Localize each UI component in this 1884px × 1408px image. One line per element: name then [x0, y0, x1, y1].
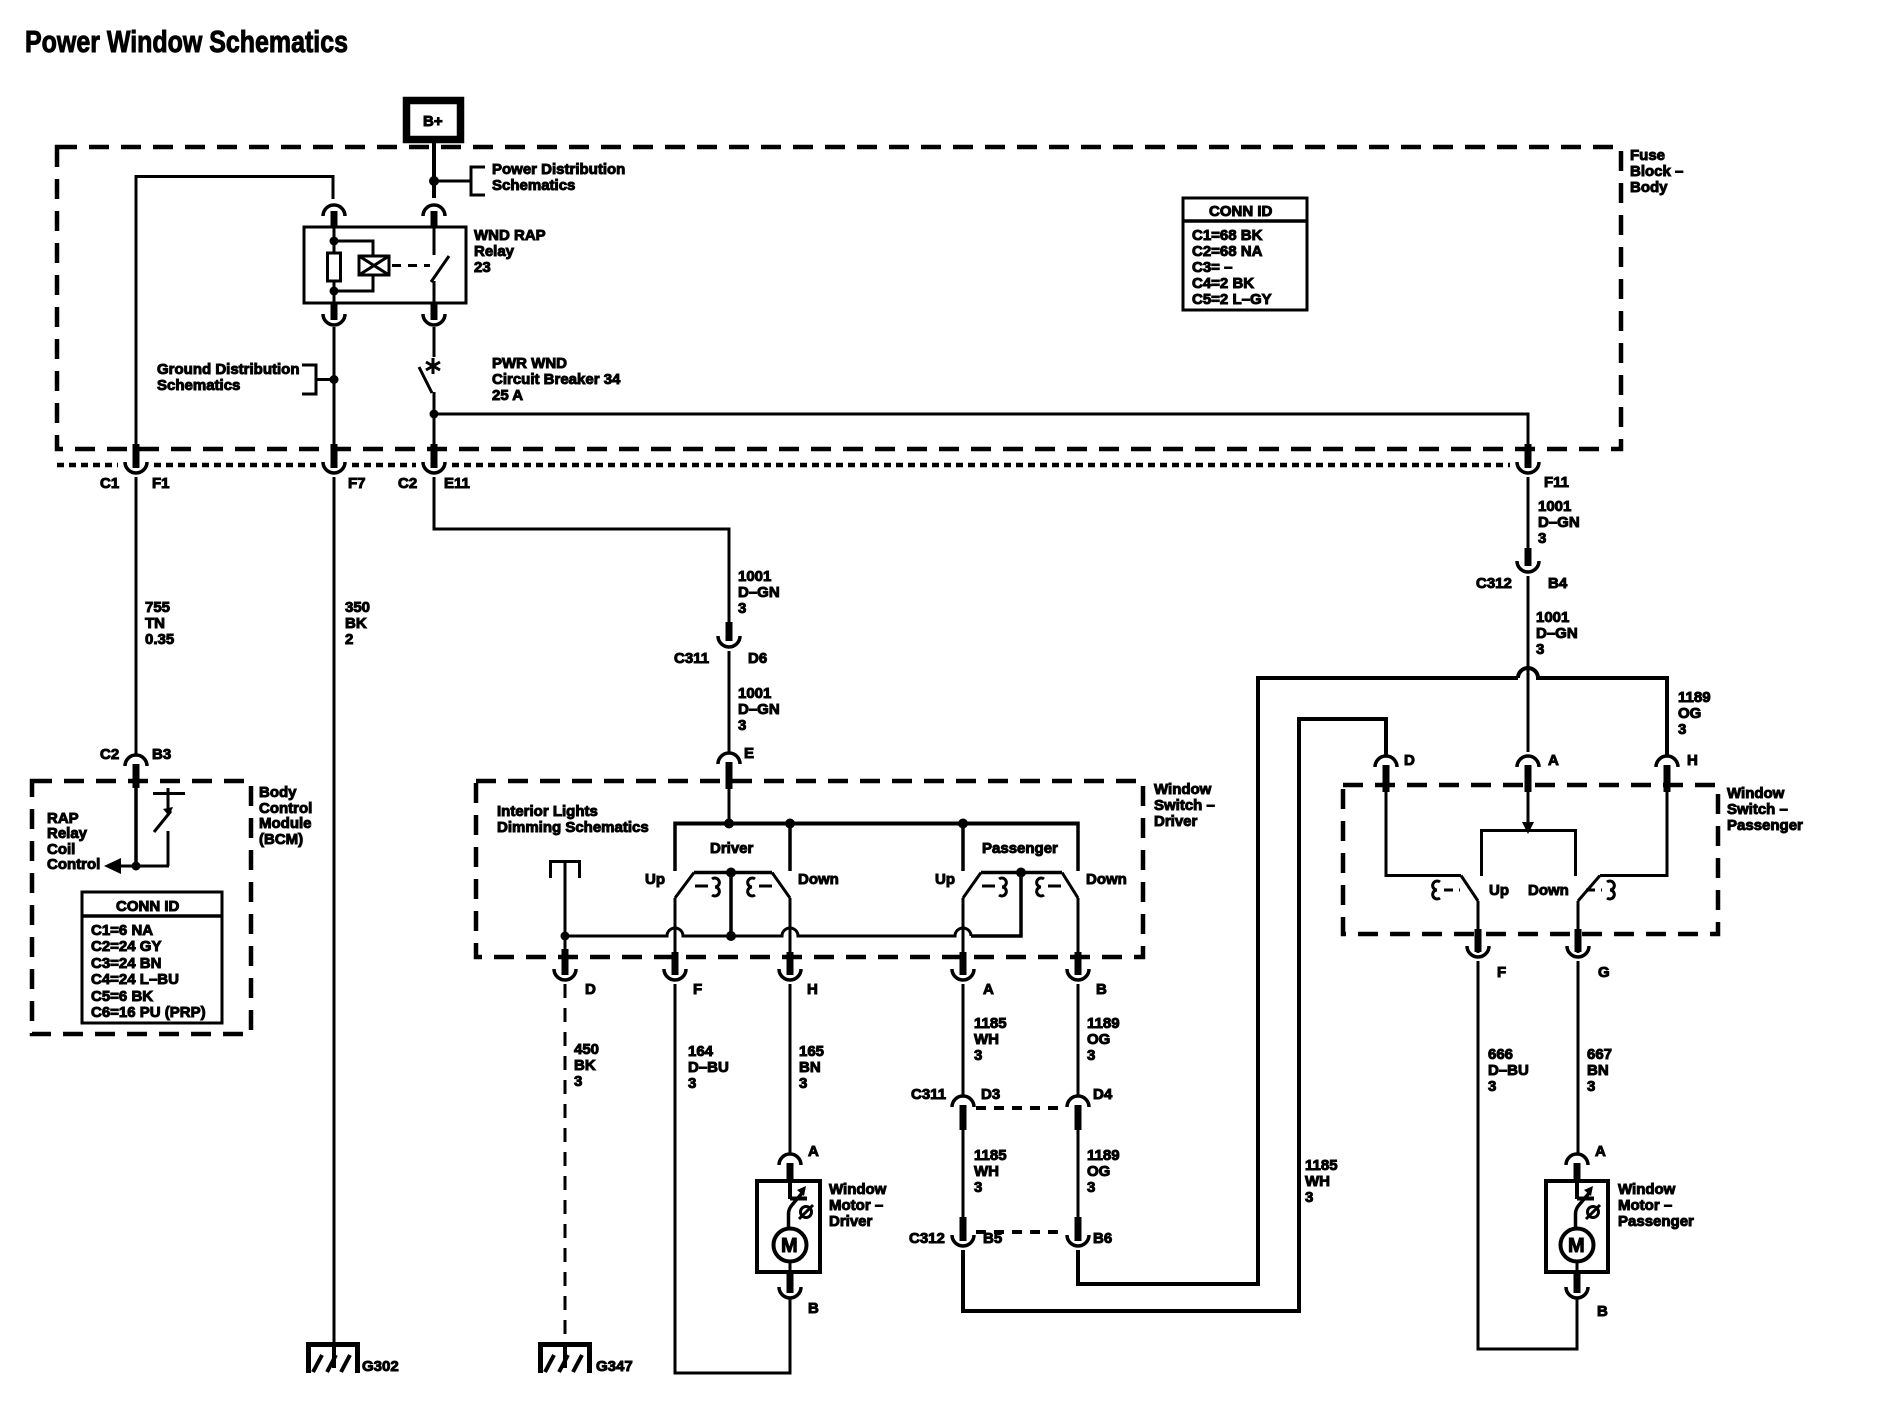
- svg-text:C311: C311: [674, 650, 709, 667]
- connector A window motor passenger: [1566, 1143, 1606, 1182]
- window switch driver box: [476, 781, 1215, 957]
- svg-text:Driver: Driver: [829, 1213, 873, 1230]
- svg-text:BK: BK: [574, 1057, 596, 1074]
- coil parallel branch wires: [334, 241, 373, 256]
- down switch blade: [1578, 876, 1600, 902]
- svg-text:F: F: [693, 981, 702, 998]
- svg-text:Dimming Schematics: Dimming Schematics: [497, 819, 649, 836]
- connector A: [952, 952, 994, 998]
- svg-text:C2: C2: [398, 475, 417, 492]
- svg-text:3: 3: [974, 1179, 982, 1196]
- svg-text:WH: WH: [974, 1163, 999, 1180]
- connector B window motor passenger: [1566, 1272, 1608, 1320]
- ground G347: [538, 1342, 633, 1375]
- svg-text:Down: Down: [798, 871, 839, 888]
- svg-text:C1: C1: [100, 475, 119, 492]
- svg-text:1189: 1189: [1087, 1147, 1120, 1164]
- driver down output wire: [789, 898, 792, 952]
- svg-text:3: 3: [1087, 1179, 1095, 1196]
- node driver rocker center: [726, 868, 736, 878]
- svg-text:Schematics: Schematics: [492, 177, 575, 194]
- switch feed top rail: [675, 822, 1078, 826]
- node breaker output: [430, 410, 439, 419]
- BCM box: [32, 781, 312, 1034]
- svg-text:Module: Module: [259, 815, 312, 832]
- svg-text:Interior Lights: Interior Lights: [497, 803, 598, 820]
- svg-text:G302: G302: [362, 1358, 399, 1375]
- svg-text:Up: Up: [1489, 882, 1509, 899]
- driver down feed stub: [788, 824, 792, 872]
- svg-text:1189: 1189: [1678, 689, 1711, 706]
- svg-text:1001: 1001: [1536, 609, 1569, 626]
- svg-text:Body: Body: [259, 784, 297, 801]
- connector C311/D4: [1067, 1086, 1113, 1130]
- wire relay pin3 down: [333, 327, 336, 448]
- connector F11: [1517, 444, 1569, 491]
- node coil bottom: [330, 287, 339, 296]
- ground G302: [306, 1342, 399, 1375]
- relay switch fixed wire: [433, 227, 436, 255]
- svg-text:3: 3: [799, 1075, 807, 1092]
- driver down detent: [748, 878, 772, 896]
- wire A feed with arrow: [1522, 792, 1534, 834]
- svg-text:C312: C312: [909, 1230, 945, 1247]
- svg-text:PWR WND: PWR WND: [492, 355, 567, 372]
- svg-text:A: A: [808, 1143, 819, 1160]
- svg-text:G: G: [1598, 964, 1610, 981]
- passenger common bracket: [1480, 829, 1577, 876]
- relay pin 3 connector (below box left): [323, 303, 345, 325]
- connector C311/D3: [911, 1086, 1000, 1130]
- svg-text:Down: Down: [1086, 871, 1127, 888]
- svg-text:BK: BK: [345, 615, 367, 632]
- svg-text:1185: 1185: [974, 1015, 1007, 1032]
- svg-text:3: 3: [1087, 1047, 1095, 1064]
- svg-text:C2: C2: [100, 746, 119, 763]
- svg-text:OG: OG: [1678, 705, 1701, 722]
- passenger rocker bar: [981, 871, 1062, 875]
- driver switch common wire: [729, 872, 733, 936]
- svg-text:1001: 1001: [738, 685, 771, 702]
- up detent symbol: [1433, 881, 1460, 899]
- relay coil branch wire: [333, 227, 336, 253]
- svg-text:D: D: [585, 981, 596, 998]
- node rap coil control: [132, 862, 141, 871]
- relay pin 1 connector (female): [323, 205, 345, 228]
- connector B: [1067, 952, 1107, 998]
- up switch blade: [1461, 876, 1478, 902]
- svg-text:Ground Distribution: Ground Distribution: [157, 361, 299, 378]
- CONN ID table BCM: [82, 892, 222, 1023]
- svg-text:M: M: [1568, 1235, 1585, 1257]
- svg-text:Window: Window: [1727, 785, 1785, 802]
- driver rocker bar: [694, 871, 772, 875]
- svg-text:Window: Window: [829, 1181, 887, 1198]
- svg-text:Switch –: Switch –: [1727, 801, 1788, 818]
- svg-text:A: A: [1548, 752, 1559, 769]
- interior lights dimming label: [497, 803, 649, 836]
- svg-text:M: M: [781, 1235, 798, 1257]
- wire 1185 WH 3 (upper): [963, 984, 1007, 1095]
- svg-text:3: 3: [1587, 1078, 1595, 1095]
- window motor driver box: [757, 1181, 887, 1272]
- svg-text:D–GN: D–GN: [1536, 625, 1578, 642]
- wire 1185 WH 3 (lower): [963, 1130, 1007, 1219]
- wire breaker down: [433, 392, 436, 448]
- B+ power symbol: [407, 101, 461, 140]
- relay coil box with X: [359, 256, 389, 275]
- connector G passenger: [1567, 929, 1610, 981]
- driver up detent: [695, 878, 719, 896]
- svg-text:Motor –: Motor –: [829, 1197, 883, 1214]
- wire D to up switch: [1386, 792, 1461, 876]
- wire 1185 WH run label: [1305, 1157, 1338, 1206]
- relay pin 4 connector (below box right): [423, 303, 445, 325]
- svg-text:CONN ID: CONN ID: [116, 898, 180, 915]
- wire 1185 WH run to passenger D: [963, 719, 1386, 1311]
- svg-text:B: B: [1597, 1303, 1608, 1320]
- svg-text:C2=68 NA: C2=68 NA: [1192, 243, 1263, 260]
- wire bracket to bottom rail: [564, 863, 567, 936]
- connector C312/B6: [1067, 1217, 1112, 1247]
- connector C312/B4: [1476, 548, 1568, 592]
- svg-text:3: 3: [1305, 1189, 1313, 1206]
- svg-text:H: H: [1687, 752, 1698, 769]
- svg-text:F11: F11: [1544, 474, 1569, 491]
- node rail passenger up: [958, 819, 968, 829]
- svg-text:C2=24 GY: C2=24 GY: [91, 938, 161, 955]
- svg-text:Fuse: Fuse: [1630, 147, 1665, 164]
- svg-text:3: 3: [738, 717, 746, 734]
- svg-text:Window: Window: [1618, 1181, 1676, 1198]
- passenger down feed stub: [1076, 822, 1080, 872]
- svg-text:755: 755: [145, 599, 170, 616]
- C311 dashed tie D3-D4: [976, 1106, 1065, 1110]
- node at power distribution tap: [429, 176, 439, 186]
- node passenger rocker center: [1016, 868, 1026, 878]
- svg-text:667: 667: [1587, 1046, 1612, 1063]
- svg-text:3: 3: [974, 1047, 982, 1064]
- wire to ground distribution bracket: [316, 378, 334, 381]
- svg-text:Relay: Relay: [474, 243, 515, 260]
- window switch passenger box: [1343, 785, 1803, 934]
- connector H passenger switch: [1656, 752, 1698, 792]
- svg-text:Passenger: Passenger: [1618, 1213, 1694, 1230]
- svg-text:Driver: Driver: [1154, 813, 1198, 830]
- connector row dotted line: [57, 463, 1510, 468]
- motor driver M circle: [774, 1229, 807, 1262]
- wire long feed to F11: [434, 414, 1528, 448]
- connector D: [554, 936, 596, 998]
- driver up blade: [675, 873, 694, 899]
- wire 350 BK 2: [334, 477, 370, 1344]
- wire E11 down and over: [434, 477, 729, 622]
- passenger switch common wire: [971, 872, 1021, 936]
- wire label 1001 D-GN 3 (first): [738, 568, 780, 617]
- motor driver internal breaker: [789, 1182, 814, 1228]
- node rail driver down: [785, 819, 795, 829]
- wire label 1001 D-GN 3 (B4): [1536, 609, 1578, 658]
- node feed rail: [724, 819, 734, 829]
- passenger down detent: [1037, 878, 1061, 896]
- svg-text:Up: Up: [935, 871, 955, 888]
- wire C1/F1 up-and-over to relay pin 1: [136, 177, 333, 463]
- down switch output wire: [1577, 901, 1580, 953]
- connector C1/F1: [100, 444, 170, 492]
- svg-text:A: A: [1595, 1143, 1606, 1160]
- svg-text:(BCM): (BCM): [259, 831, 303, 848]
- svg-text:Power Window Schematics: Power Window Schematics: [25, 24, 348, 59]
- node coil top: [330, 237, 339, 246]
- wire 450 BK 3 dashed: [565, 984, 599, 1344]
- svg-text:Switch –: Switch –: [1154, 797, 1215, 814]
- wire B4 down to passenger A: [1527, 576, 1530, 752]
- svg-text:0.35: 0.35: [145, 631, 174, 648]
- wire F11 down: [1527, 477, 1530, 548]
- svg-text:Driver: Driver: [710, 840, 754, 857]
- svg-text:1001: 1001: [738, 568, 771, 585]
- motor passenger lower wire: [1576, 1261, 1579, 1272]
- driver box bottom rail with hops: [565, 928, 971, 936]
- node ground distribution tap: [330, 375, 339, 384]
- node driver common at rail: [726, 931, 736, 941]
- window motor passenger box: [1546, 1181, 1694, 1272]
- wire 667 BN 3: [1578, 961, 1612, 1153]
- connector C2/E11: [398, 444, 470, 492]
- svg-text:H: H: [807, 981, 818, 998]
- relay switch blade: [431, 256, 449, 282]
- svg-text:C3=24 BN: C3=24 BN: [91, 955, 161, 972]
- relay actuator dashed link: [392, 264, 430, 267]
- svg-text:D: D: [1404, 752, 1415, 769]
- svg-text:B: B: [808, 1300, 819, 1317]
- svg-text:Circuit Breaker 34: Circuit Breaker 34: [492, 371, 621, 388]
- svg-text:Body: Body: [1630, 179, 1668, 196]
- passenger up feed stub: [961, 824, 965, 872]
- svg-text:Power Distribution: Power Distribution: [492, 161, 625, 178]
- svg-text:WH: WH: [1305, 1173, 1330, 1190]
- wire 755 TN 0.35: [136, 477, 174, 754]
- wire 1189 OG 3 (lower): [1078, 1130, 1120, 1219]
- wire label 1001 D-GN 3 (F11): [1538, 498, 1580, 547]
- svg-text:1185: 1185: [974, 1147, 1007, 1164]
- svg-text:C5=6 BK: C5=6 BK: [91, 988, 153, 1005]
- svg-text:Relay: Relay: [47, 825, 88, 842]
- passenger up blade: [963, 873, 981, 899]
- connector F passenger: [1467, 929, 1506, 981]
- svg-text:25 A: 25 A: [492, 387, 523, 404]
- resistor inside relay: [328, 253, 341, 281]
- passenger down output wire: [1077, 898, 1080, 952]
- driver down blade: [772, 873, 790, 899]
- svg-text:C5=2 L–GY: C5=2 L–GY: [1192, 291, 1272, 308]
- svg-text:B4: B4: [1548, 575, 1568, 592]
- connector H: [779, 952, 818, 998]
- svg-text:BN: BN: [799, 1059, 821, 1076]
- svg-text:Motor –: Motor –: [1618, 1197, 1672, 1214]
- rap output wire with arrow: [104, 858, 169, 874]
- connector F: [664, 952, 702, 998]
- svg-text:3: 3: [688, 1075, 696, 1092]
- svg-text:C4=2 BK: C4=2 BK: [1192, 275, 1254, 292]
- svg-text:D3: D3: [981, 1086, 1000, 1103]
- svg-text:Passenger: Passenger: [1727, 817, 1803, 834]
- svg-text:E11: E11: [444, 475, 470, 492]
- svg-text:D–GN: D–GN: [738, 701, 780, 718]
- connector C312/B5: [909, 1217, 1002, 1247]
- wire D6 to E: [728, 651, 731, 752]
- svg-text:3: 3: [1488, 1078, 1496, 1095]
- svg-text:450: 450: [574, 1041, 599, 1058]
- wire 1189 OG run to passenger H: [1078, 678, 1518, 1284]
- wire to power distribution bracket: [434, 180, 471, 183]
- wire 666 D-BU 3: [1478, 961, 1577, 1349]
- svg-text:TN: TN: [145, 615, 165, 632]
- svg-text:23: 23: [474, 259, 491, 276]
- wire B+ down to relay: [432, 140, 436, 198]
- BCM driver switch: [153, 788, 185, 866]
- svg-text:D6: D6: [748, 650, 767, 667]
- svg-text:2: 2: [345, 631, 353, 648]
- svg-text:3: 3: [1536, 641, 1544, 658]
- fuse block - body box: [57, 147, 1683, 449]
- node bottom rail left: [561, 932, 570, 941]
- svg-text:B3: B3: [152, 746, 171, 763]
- svg-text:3: 3: [574, 1073, 582, 1090]
- passenger up detent: [982, 878, 1006, 896]
- svg-text:WND RAP: WND RAP: [474, 227, 546, 244]
- svg-text:Window: Window: [1154, 781, 1212, 798]
- svg-text:F: F: [1497, 964, 1506, 981]
- wire 1189 OG run label: [1678, 689, 1711, 738]
- passenger up output wire: [962, 898, 965, 952]
- svg-text:C6=16 PU (PRP): C6=16 PU (PRP): [91, 1004, 206, 1021]
- svg-text:D–GN: D–GN: [738, 584, 780, 601]
- svg-text:D–BU: D–BU: [688, 1059, 729, 1076]
- svg-text:164: 164: [688, 1043, 714, 1060]
- svg-text:E: E: [744, 745, 754, 762]
- C312 dashed tie B5-B6: [976, 1230, 1065, 1234]
- wire 165 BN 3: [790, 984, 824, 1153]
- svg-text:3: 3: [1538, 530, 1546, 547]
- motor driver lower wire: [789, 1261, 792, 1272]
- svg-text:Schematics: Schematics: [157, 377, 240, 394]
- svg-text:666: 666: [1488, 1046, 1513, 1063]
- down detent symbol: [1586, 881, 1614, 899]
- motor passenger internal breaker: [1576, 1182, 1601, 1228]
- svg-text:C312: C312: [1476, 575, 1512, 592]
- driver up output wire: [674, 898, 677, 952]
- wire 164 D-BU 3: [675, 984, 790, 1373]
- svg-text:Down: Down: [1528, 882, 1569, 899]
- connector B window motor driver: [779, 1272, 819, 1317]
- connector D passenger switch: [1375, 752, 1415, 792]
- svg-text:D–GN: D–GN: [1538, 514, 1580, 531]
- svg-text:OG: OG: [1087, 1163, 1110, 1180]
- connector A passenger switch: [1517, 752, 1559, 792]
- driver up feed stub: [673, 822, 677, 872]
- svg-text:1185: 1185: [1305, 1157, 1338, 1174]
- svg-text:Up: Up: [645, 871, 665, 888]
- RAP relay coil control label: [47, 810, 100, 873]
- svg-text:BN: BN: [1587, 1062, 1609, 1079]
- svg-text:WH: WH: [974, 1031, 999, 1048]
- connector E: [718, 745, 754, 789]
- wire B3 down inside BCM: [134, 788, 138, 866]
- passenger down blade: [1062, 873, 1078, 899]
- CONN ID table fuse block: [1183, 198, 1307, 310]
- wire E into switch: [728, 789, 731, 823]
- svg-text:3: 3: [1678, 721, 1686, 738]
- svg-text:OG: OG: [1087, 1031, 1110, 1048]
- interior lights bracket: [549, 860, 581, 878]
- motor passenger M circle: [1561, 1229, 1594, 1262]
- svg-text:CONN ID: CONN ID: [1209, 203, 1273, 220]
- power distribution schematics pointer: [470, 161, 626, 197]
- connector F7: [323, 444, 366, 492]
- svg-text:D4: D4: [1093, 1086, 1113, 1103]
- svg-text:165: 165: [799, 1043, 824, 1060]
- svg-text:C1=68 BK: C1=68 BK: [1192, 227, 1263, 244]
- wire 1189 OG hop over B4: [1518, 668, 1667, 755]
- wire relay pin4 down to breaker: [433, 327, 436, 357]
- svg-text:B: B: [1096, 981, 1107, 998]
- relay switch lower wire: [433, 281, 436, 303]
- svg-text:F7: F7: [348, 475, 366, 492]
- wire 1189 OG 3 (upper): [1078, 984, 1120, 1095]
- circuit breaker asterisk: [426, 358, 440, 374]
- svg-text:C311: C311: [911, 1086, 946, 1103]
- svg-text:C4=24 L–BU: C4=24 L–BU: [91, 971, 179, 988]
- svg-text:Control: Control: [47, 856, 100, 873]
- wire label 1001 D-GN 3 (second): [738, 685, 780, 734]
- connector A window motor driver: [779, 1143, 819, 1182]
- svg-text:Passenger: Passenger: [982, 840, 1058, 857]
- svg-text:F1: F1: [152, 475, 170, 492]
- wire below resistor: [333, 281, 336, 303]
- svg-text:1001: 1001: [1538, 498, 1571, 515]
- up switch output wire: [1477, 901, 1480, 953]
- connector C311/D6: [674, 622, 767, 667]
- relay WND RAP 23 box: [304, 227, 466, 303]
- svg-text:B6: B6: [1093, 1230, 1112, 1247]
- svg-text:A: A: [983, 981, 994, 998]
- svg-text:D–BU: D–BU: [1488, 1062, 1529, 1079]
- circuit breaker blade: [419, 367, 432, 393]
- svg-text:C1=6 NA: C1=6 NA: [91, 922, 153, 939]
- connector C2/B3: [100, 746, 171, 788]
- ground distribution schematics pointer: [157, 361, 318, 396]
- svg-text:3: 3: [738, 600, 746, 617]
- relay pin 2 connector (female): [423, 205, 445, 228]
- svg-text:1189: 1189: [1087, 1015, 1120, 1032]
- svg-text:C3= –: C3= –: [1192, 259, 1232, 276]
- svg-text:G347: G347: [596, 1358, 633, 1375]
- svg-text:Block –: Block –: [1630, 163, 1683, 180]
- svg-text:B+: B+: [423, 113, 443, 130]
- wire H to down switch: [1600, 792, 1667, 876]
- svg-text:350: 350: [345, 599, 370, 616]
